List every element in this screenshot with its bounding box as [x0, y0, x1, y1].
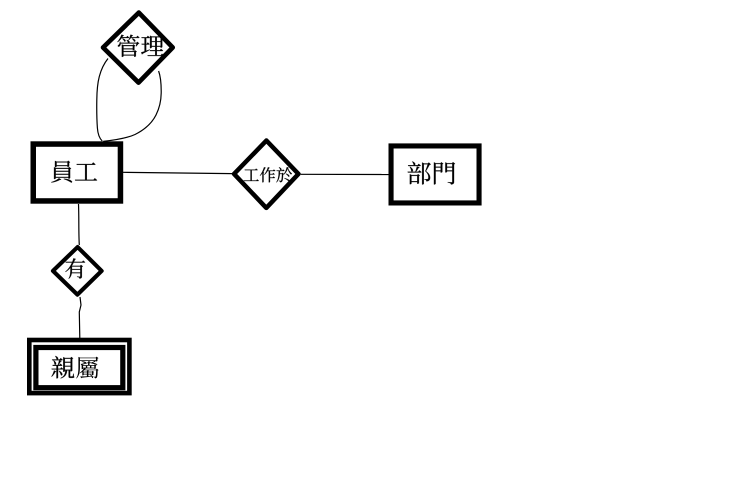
wire: 有 to 親屬 — [79, 297, 81, 338]
weak entity inner rectangle 親屬 — [36, 348, 123, 388]
wire: 員工 to 有 — [78, 204, 81, 245]
label 有 — [65, 258, 85, 278]
label 部門 — [408, 162, 455, 185]
label 員工 — [51, 161, 97, 183]
relationship diamond 管理 — [103, 13, 173, 83]
label 管理 — [117, 35, 164, 57]
entity rectangle 員工 — [33, 144, 120, 201]
entity rectangle 部門 — [391, 146, 479, 203]
label 工作於 — [244, 167, 292, 182]
wire: recursive loop left curve (管理 to 員工) — [97, 59, 108, 142]
label 親屬 — [51, 356, 98, 379]
wire: recursive loop right curve (管理 to 員工) — [103, 71, 161, 141]
wire: 工作於 to 部門 — [301, 173, 389, 175]
relationship diamond 工作於 — [234, 141, 298, 208]
weak entity outer rectangle 親屬 — [29, 340, 129, 393]
relationship diamond 有 — [53, 247, 102, 295]
wire: 員工 to 工作於 — [123, 172, 232, 173]
